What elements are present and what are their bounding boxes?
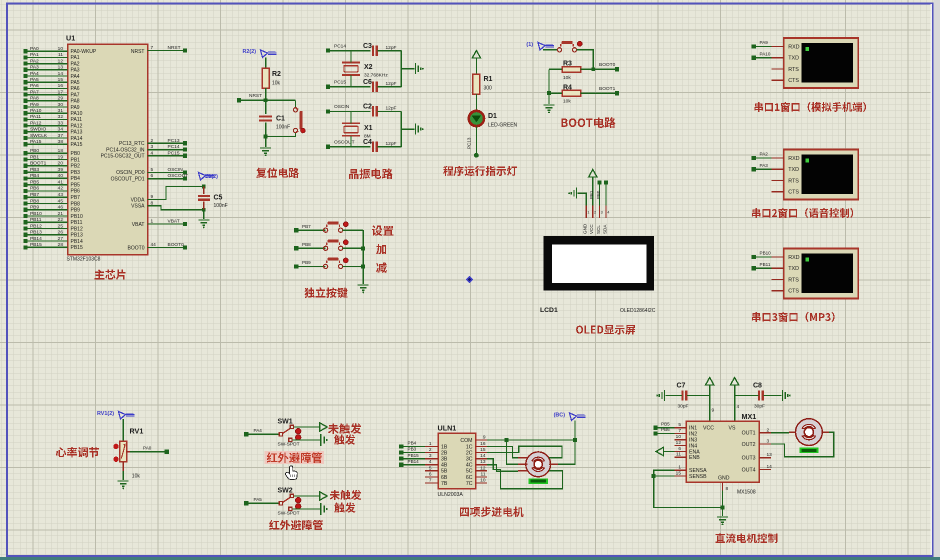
svg-text:PA6: PA6 [30, 83, 39, 89]
svg-text:PA5: PA5 [71, 80, 80, 86]
wire to ground X2 [401, 68, 414, 70]
svg-text:40: 40 [58, 173, 64, 179]
terminal D1 cathode [474, 153, 479, 158]
svg-text:17: 17 [58, 89, 64, 95]
svg-text:C4: C4 [363, 139, 372, 146]
wire PA10 to U1 [26, 112, 68, 114]
svg-text:PB3: PB3 [71, 170, 81, 176]
svg-text:PA9: PA9 [760, 40, 769, 45]
svg-text:45: 45 [58, 198, 64, 204]
svg-text:8: 8 [726, 486, 729, 492]
switch SW1 lever [283, 428, 291, 433]
svg-text:10k: 10k [272, 81, 281, 87]
svg-text:PB8: PB8 [302, 242, 311, 247]
pin 4B stub [425, 464, 438, 466]
svg-text:11: 11 [676, 452, 681, 458]
ground SW1 [320, 434, 322, 446]
wire PB11 to U1 [26, 221, 68, 223]
svg-text:PB7: PB7 [302, 224, 311, 229]
svg-text:R2(2): R2(2) [243, 49, 257, 55]
pin RXD stub window2 [772, 157, 784, 159]
wire 2C to motor [487, 446, 562, 458]
motor stepper pin [518, 463, 527, 465]
wire 1C to motor [487, 446, 518, 457]
svg-text:38: 38 [58, 139, 64, 145]
svg-text:C7: C7 [677, 383, 686, 390]
svg-text:C5: C5 [214, 194, 223, 201]
wire PB6 to IN2 [657, 433, 674, 435]
caption 触发 SW2 [334, 502, 355, 512]
caption 未触发 SW1 [328, 423, 361, 434]
svg-text:OUT3: OUT3 [742, 456, 756, 462]
svg-text:PA7: PA7 [30, 89, 39, 95]
svg-text:PC13_RTC: PC13_RTC [119, 141, 145, 147]
pin OLED SCL stub [598, 206, 600, 219]
svg-text:VS: VS [729, 426, 736, 432]
svg-text:VSSA: VSSA [131, 204, 145, 210]
pot RV1 body [120, 441, 127, 461]
svg-text:3: 3 [601, 211, 603, 215]
wire OSCIN net [329, 110, 371, 112]
crystal X2 [342, 62, 360, 64]
virtual terminal window1 cursor [805, 47, 809, 51]
svg-text:OSCOUT_PD1: OSCOUT_PD1 [111, 176, 145, 182]
svg-text:PB1: PB1 [71, 157, 81, 163]
wire PB5 to U1 [26, 184, 68, 186]
svg-text:D1: D1 [488, 113, 497, 120]
wire key1 to bus [343, 229, 364, 231]
ground C8 [782, 390, 784, 401]
svg-text:SENSB: SENSB [689, 474, 707, 480]
wire PC15 net [329, 86, 371, 88]
svg-text:5B: 5B [441, 469, 448, 475]
svg-text:OSCIN_PD0: OSCIN_PD0 [116, 170, 145, 176]
svg-text:C2: C2 [363, 104, 372, 111]
status bar [0, 557, 940, 560]
pin RTS stub window2 [772, 179, 784, 181]
wire PB15 to ULN1 [403, 458, 425, 460]
svg-text:20: 20 [58, 161, 64, 167]
svg-text:30pF: 30pF [678, 404, 689, 410]
capacitor C5 [203, 187, 205, 195]
pin 5B stub [425, 470, 438, 472]
pin CTS stub window2 [772, 191, 784, 193]
caption 复位电路 [256, 168, 299, 178]
caption 未触发 SW2 [330, 490, 361, 500]
wire PA4 to U1 [26, 75, 68, 77]
svg-text:PA3: PA3 [760, 163, 769, 168]
pin 6B stub [425, 476, 438, 478]
svg-text:ULN1: ULN1 [438, 424, 457, 433]
svg-text:44: 44 [151, 242, 157, 248]
resistor R2 [262, 68, 269, 88]
wire COM to right common [558, 440, 575, 464]
wire PB12 to U1 [26, 228, 68, 230]
pin IN3 stub [674, 439, 686, 441]
wire C1 to ground [265, 137, 267, 148]
svg-text:BOOT1: BOOT1 [30, 161, 47, 167]
svg-text:GND: GND [718, 476, 730, 482]
svg-text:PA10: PA10 [30, 108, 42, 114]
svg-text:CTS: CTS [788, 289, 799, 295]
pin OUT1 stub [759, 432, 771, 434]
wire PA15 to U1 [26, 143, 68, 145]
wire PA5 to SW2 [248, 502, 279, 504]
switch SW1 pole [279, 433, 282, 436]
svg-text:ULN2003A: ULN2003A [438, 492, 464, 498]
power arrow VS MX1 [730, 378, 738, 386]
svg-text:TXD: TXD [788, 266, 799, 272]
pin 3C stub [476, 458, 487, 460]
svg-text:RV1: RV1 [130, 427, 144, 436]
wire VDDA to C5 top [148, 187, 204, 200]
switch SW2 throw2 [289, 507, 292, 510]
wire C4 right [378, 146, 402, 148]
svg-text:PB13: PB13 [30, 230, 42, 236]
motor dc pin left [789, 431, 796, 433]
pin 3B stub [425, 458, 438, 460]
wire C2 right [378, 110, 402, 112]
svg-text:PB6: PB6 [661, 427, 670, 432]
svg-text:BOOT0: BOOT0 [599, 62, 616, 68]
resistor R1 [473, 74, 480, 94]
wire R2 to NRST node [265, 88, 267, 100]
wire keys bus [362, 230, 364, 284]
svg-text:1: 1 [429, 441, 432, 447]
svg-text:OUT2: OUT2 [742, 442, 756, 448]
wire COM to left common [507, 440, 519, 464]
wire RV1 bottom [122, 462, 124, 471]
svg-text:4: 4 [607, 211, 609, 215]
motor MOTOR-STEPPER body [526, 452, 551, 477]
svg-text:46: 46 [58, 205, 64, 211]
wire C3 right [378, 50, 402, 52]
svg-text:R4: R4 [563, 84, 572, 91]
svg-text:PB14: PB14 [408, 459, 420, 464]
motor stepper pin [518, 470, 527, 472]
svg-text:11: 11 [58, 52, 63, 58]
svg-text:32: 32 [58, 114, 64, 120]
svg-text:13: 13 [58, 65, 64, 71]
wire PB9 to U1 [26, 209, 68, 211]
svg-text:42: 42 [58, 186, 64, 192]
svg-text:VBAT: VBAT [168, 219, 180, 225]
wire X2 top [350, 51, 352, 63]
pin ENB stub [674, 456, 686, 458]
svg-text:9: 9 [712, 408, 715, 414]
probe RV1(2) [119, 412, 126, 420]
svg-text:VBAT: VBAT [132, 222, 145, 228]
svg-text:7: 7 [151, 45, 154, 51]
pin TXD stub window2 [772, 168, 784, 170]
wire PA9 to U1 [26, 106, 68, 108]
ground BOOT [544, 104, 555, 106]
probe C5(2) [199, 173, 206, 181]
svg-text:1: 1 [587, 211, 589, 215]
svg-text:PB14: PB14 [71, 239, 83, 245]
svg-text:PA15: PA15 [30, 139, 42, 145]
svg-text:14: 14 [767, 464, 773, 470]
svg-text:4B: 4B [441, 463, 448, 469]
svg-text:6B: 6B [441, 475, 448, 481]
svg-text:8M: 8M [364, 133, 371, 139]
svg-text:PA3: PA3 [71, 68, 80, 74]
caption 独立按键 [304, 288, 347, 299]
wire PB1 to U1 [26, 159, 68, 161]
power arrow OLED VCC [589, 170, 597, 178]
wire PB4 to U1 [26, 177, 68, 179]
wire SWDIO to U1 [26, 131, 68, 133]
svg-text:1B: 1B [441, 444, 448, 450]
wire PB7 to U1 [26, 196, 68, 198]
wire OUT1 to motor [771, 432, 789, 434]
wire key3 to bus [343, 265, 364, 267]
svg-text:18: 18 [58, 148, 64, 154]
svg-text:VCC: VCC [589, 224, 594, 234]
svg-text:PB4: PB4 [408, 441, 417, 446]
svg-text:LED-GREEN: LED-GREEN [488, 123, 518, 129]
svg-text:100nF: 100nF [214, 203, 228, 209]
svg-text:30: 30 [58, 102, 64, 108]
pin 2B stub [425, 452, 438, 454]
svg-text:PC15: PC15 [334, 80, 346, 86]
svg-text:PB9: PB9 [71, 208, 81, 214]
pin RTS stub window1 [772, 68, 784, 70]
svg-text:RTS: RTS [788, 277, 799, 283]
svg-text:PB2: PB2 [71, 164, 81, 170]
pot RV1 adjust dot up [113, 444, 118, 449]
svg-text:LCD1: LCD1 [540, 307, 558, 314]
svg-text:TXD: TXD [788, 167, 799, 173]
pin IN2 stub [674, 433, 686, 435]
wire SENSB [654, 475, 675, 477]
svg-text:BOOT0: BOOT0 [128, 245, 145, 251]
motor stepper pin right [549, 457, 558, 459]
wire PB13 to U1 [26, 234, 68, 236]
svg-text:9: 9 [483, 434, 486, 440]
virtual terminal window3 cursor [805, 258, 809, 262]
pin SENSB stub [674, 475, 686, 477]
switch SW1 throw2 [289, 438, 292, 441]
capacitor C1 [259, 115, 272, 117]
svg-text:2: 2 [151, 138, 154, 144]
svg-text:PA6: PA6 [71, 86, 80, 92]
wire C8 right [764, 395, 782, 397]
wire PB11 window3 [756, 267, 772, 269]
virtual terminal window3 screen [802, 254, 853, 293]
wire C5 to ground [203, 210, 205, 219]
virtual terminal window2 body [784, 150, 858, 200]
pin 4C stub [476, 464, 487, 466]
svg-text:SCL: SCL [596, 225, 601, 234]
svg-text:15: 15 [480, 447, 486, 453]
svg-text:PB10: PB10 [760, 251, 772, 256]
svg-text:2: 2 [594, 211, 596, 215]
svg-text:26: 26 [58, 230, 64, 236]
svg-text:PA4: PA4 [254, 428, 263, 433]
wire PA5 to U1 [26, 81, 68, 83]
wire RV1 wiper to PA0 [127, 451, 131, 453]
wire PC15 [148, 155, 186, 157]
power arrow D1 [472, 51, 480, 59]
wire PA3 window2 [756, 168, 772, 170]
LED D1 [469, 111, 484, 126]
motor stepper pin left [518, 457, 527, 459]
svg-text:RTS: RTS [788, 67, 799, 73]
caption BOOT电路 [562, 117, 616, 128]
svg-text:NRST: NRST [131, 49, 145, 55]
svg-text:4C: 4C [466, 463, 473, 469]
caption 串口1窗口 [754, 102, 866, 112]
pin OUT2 stub [759, 443, 771, 445]
wire PA4 to SW1 [248, 433, 279, 435]
svg-text:PB9: PB9 [30, 205, 39, 211]
pin OLED GND stub [585, 206, 587, 219]
power arrow VCC MX1 [706, 378, 714, 386]
svg-text:RV1(2): RV1(2) [97, 411, 114, 417]
switch SW2 dot up [296, 498, 301, 503]
svg-text:PA0-WKUP: PA0-WKUP [71, 49, 97, 55]
svg-text:CTS: CTS [788, 190, 799, 196]
motor dc body [796, 419, 823, 446]
caption 加 [376, 244, 386, 254]
svg-text:30pF: 30pF [754, 404, 765, 410]
button BOOT [557, 48, 561, 52]
wire PA11 to U1 [26, 118, 68, 120]
svg-text:PA11: PA11 [71, 117, 83, 123]
svg-text:10: 10 [676, 434, 682, 440]
svg-text:PC14: PC14 [334, 43, 346, 49]
svg-text:PA12: PA12 [30, 120, 42, 126]
svg-text:PB1: PB1 [589, 190, 594, 199]
ground C7 [664, 390, 666, 401]
svg-text:PA0: PA0 [143, 445, 152, 450]
wire NRST to button [295, 100, 297, 107]
motor dc label plate [800, 447, 819, 453]
chip U1 body [68, 44, 148, 255]
wire R1 to D1 [475, 94, 477, 110]
pin IN1 stub [674, 427, 686, 429]
svg-text:VCC: VCC [703, 426, 714, 432]
svg-text:PA4: PA4 [30, 71, 39, 77]
svg-text:31: 31 [58, 108, 64, 114]
svg-text:5: 5 [678, 422, 681, 428]
wire PA0 to U1 [26, 50, 68, 52]
svg-text:10: 10 [480, 478, 486, 484]
svg-text:PB4: PB4 [71, 176, 81, 182]
wire SW2 throw2 to ground [293, 508, 321, 510]
pin 2C stub [476, 452, 487, 454]
wire crystal right bus top [400, 51, 402, 87]
svg-text:C3: C3 [363, 43, 372, 50]
svg-text:PB14: PB14 [30, 236, 42, 242]
svg-text:5C: 5C [466, 469, 473, 475]
svg-text:SW1: SW1 [278, 419, 293, 426]
wire BOOT1 to U1 [26, 165, 68, 167]
svg-text:C8: C8 [753, 383, 762, 390]
svg-text:PA2: PA2 [30, 58, 39, 64]
wire R3 left [549, 68, 562, 70]
svg-text:1C: 1C [466, 444, 473, 450]
svg-text:PA1: PA1 [30, 52, 39, 58]
svg-text:16: 16 [480, 441, 486, 447]
virtual terminal window1 body [784, 38, 858, 88]
chip ULN1 body [438, 433, 476, 488]
svg-text:2C: 2C [466, 450, 473, 456]
pin RXD stub window3 [772, 256, 784, 258]
pin 1C stub [476, 445, 487, 447]
svg-text:PB15: PB15 [30, 242, 42, 248]
ground X2 [415, 63, 417, 74]
caption OLED显示屏 [576, 325, 635, 335]
svg-text:IN4: IN4 [689, 443, 697, 449]
pin TXD stub window1 [772, 57, 784, 59]
wire D1 to terminal [475, 127, 477, 154]
wire R4 right BOOT1 [581, 92, 617, 94]
probe (1) [538, 43, 545, 51]
svg-text:PA12: PA12 [71, 123, 83, 129]
wire PB14 to U1 [26, 240, 68, 242]
mouse cursor [285, 466, 297, 480]
svg-text:43: 43 [58, 192, 64, 198]
ground C5 [198, 219, 209, 221]
wire PB3 to ULN1 [403, 452, 425, 454]
svg-text:PB10: PB10 [30, 211, 42, 217]
svg-text:RTS: RTS [788, 178, 799, 184]
svg-text:1: 1 [678, 465, 681, 471]
svg-text:3: 3 [767, 439, 770, 445]
svg-text:PB5: PB5 [661, 421, 670, 426]
button RST pin top [293, 108, 297, 112]
virtual terminal window1 screen [802, 43, 853, 82]
wire PA1 to U1 [26, 56, 68, 58]
caption 红外避障管 SW1 [267, 452, 322, 463]
wire 4C to motor [487, 465, 518, 472]
svg-text:U1: U1 [66, 34, 75, 43]
motor dc pin right [822, 431, 829, 433]
caption 串口2窗口 [752, 208, 853, 218]
ground SW2 [320, 503, 322, 515]
wire SW2 throw1 to arrow [294, 495, 319, 497]
wire crystal right bus bottom [400, 111, 402, 146]
capacitor C7 [681, 390, 683, 400]
svg-text:13: 13 [767, 452, 773, 458]
wire OSCOUT [148, 178, 186, 180]
wire PA10 window1 [756, 57, 772, 59]
svg-text:PB4: PB4 [30, 173, 39, 179]
svg-text:OSCIN: OSCIN [168, 167, 184, 173]
svg-text:PA7: PA7 [71, 92, 80, 98]
svg-text:X1: X1 [364, 125, 373, 132]
svg-text:PB3: PB3 [408, 447, 417, 452]
svg-text:PA3: PA3 [30, 65, 39, 71]
svg-text:6: 6 [151, 173, 154, 179]
svg-text:12: 12 [676, 440, 682, 446]
svg-text:R1: R1 [484, 76, 493, 83]
svg-text:4: 4 [151, 150, 154, 156]
wire SENSA [654, 470, 723, 507]
virtual terminal window2 cursor [805, 159, 809, 163]
svg-text:PB12: PB12 [71, 226, 83, 232]
svg-text:33: 33 [58, 120, 64, 126]
svg-text:300: 300 [484, 86, 493, 92]
wire OSCIN [148, 171, 186, 173]
svg-text:4: 4 [737, 404, 740, 410]
power arrow SW1 [320, 423, 328, 431]
svg-text:10k: 10k [563, 75, 571, 81]
wire PC13 [148, 142, 186, 144]
caption 串口3窗口 [752, 312, 835, 322]
